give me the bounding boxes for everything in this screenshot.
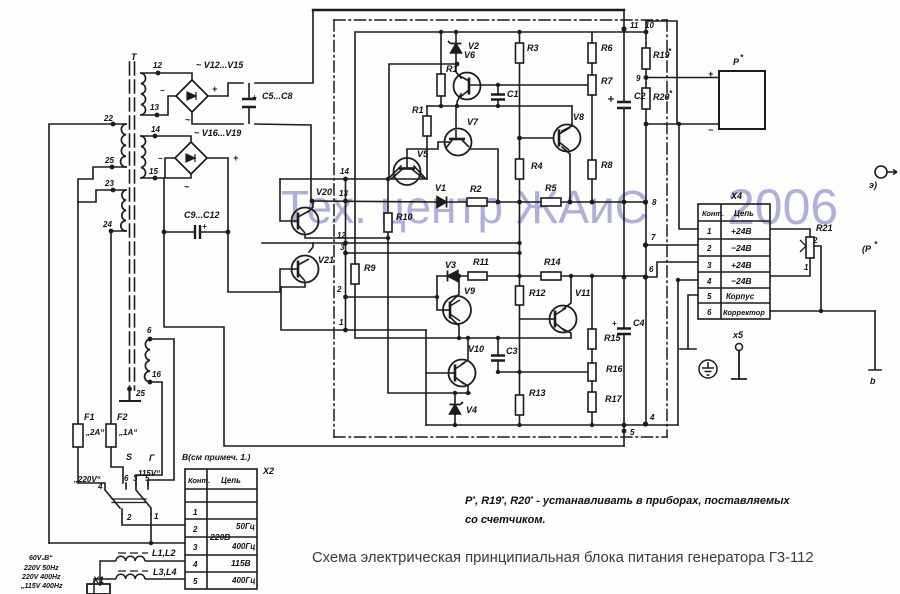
svg-text:R14: R14 (544, 257, 561, 267)
svg-text:5: 5 (193, 577, 198, 586)
svg-text:R4: R4 (531, 161, 543, 171)
svg-text:R12: R12 (529, 288, 546, 298)
R15-R16-R17 column (591, 276, 593, 425)
R1b leads (426, 106, 428, 179)
resistor R17 (588, 392, 596, 412)
svg-text:Х4: Х4 (730, 191, 742, 201)
svg-text:P: P (733, 57, 740, 67)
V2 column / wire y64 (389, 32, 456, 179)
svg-text:R2: R2 (470, 184, 482, 194)
rail 12 (262, 242, 519, 244)
transistor V11 (550, 306, 577, 333)
V10 emitter (462, 382, 468, 393)
V8 emitter (562, 147, 570, 202)
resistor R1 upper (351, 43, 650, 415)
resistor R16 (588, 363, 596, 381)
svg-text:Г: Г (149, 453, 155, 463)
svg-text:+24В: +24В (731, 260, 752, 270)
svg-text:−: − (160, 86, 165, 95)
svg-text:V1: V1 (435, 183, 446, 193)
svg-text:4: 4 (649, 413, 655, 422)
resistor R20 (642, 88, 650, 109)
zener diode V2 (448, 41, 462, 53)
svg-text:R11: R11 (473, 257, 489, 267)
X2 connector table (185, 469, 257, 589)
V11 collector (563, 276, 571, 309)
svg-text:15: 15 (149, 167, 158, 176)
bridge rectifier V16-V19 (175, 142, 207, 174)
svg-text:13: 13 (339, 189, 348, 198)
X4 connector table (698, 204, 770, 319)
chassis dash-dot boundary (334, 20, 667, 437)
svg-text:R10: R10 (396, 212, 413, 222)
R1a leads (440, 64, 442, 106)
wire C3 bottom to R16 (498, 371, 588, 373)
wire y106 (427, 105, 572, 107)
capacitor C4 (617, 329, 631, 335)
capacitor C2 (608, 96, 631, 108)
winding 14-15 (141, 136, 146, 178)
capacitor C9-C12 (164, 225, 228, 239)
transistor V6 (454, 73, 481, 100)
wire 15 (141, 158, 191, 178)
rail 393 and V4 stem (454, 393, 456, 425)
svg-text:+: + (252, 93, 257, 102)
svg-text:V7: V7 (467, 117, 479, 127)
ground symbol (699, 360, 717, 378)
resistor R7 (588, 75, 596, 95)
wire to P- (646, 123, 719, 125)
transistor V20 (292, 208, 319, 235)
svg-text:5: 5 (145, 474, 150, 483)
R9 feed wire x=355 (355, 32, 571, 338)
resistor R6 (588, 43, 596, 63)
svg-text:3: 3 (707, 261, 712, 270)
V9 collector (450, 276, 459, 303)
svg-text:V3: V3 (445, 260, 456, 270)
line filter L3,L4 (94, 571, 185, 594)
rail 276 (V3-R11-R14-node6) (437, 275, 646, 277)
transistor V9 (443, 296, 471, 324)
node7 wire to X4 row2 (646, 244, 698, 246)
svg-text:S: S (126, 452, 132, 462)
svg-text:R1: R1 (446, 64, 458, 74)
voltage text block (20, 555, 63, 590)
svg-text:R3: R3 (527, 43, 539, 53)
transistor V21 (292, 256, 319, 283)
wire node9 to P+ (646, 77, 719, 79)
resistor R14 (horizontal) (541, 272, 561, 280)
svg-text:25: 25 (104, 156, 114, 165)
wire 23 jog (78, 190, 113, 202)
handwritten note (465, 495, 791, 526)
svg-text:−24В: −24В (731, 243, 752, 253)
svg-text:Схема электрическая принципиал: Схема электрическая принципиальная блока… (312, 550, 814, 566)
svg-text:14: 14 (151, 125, 160, 134)
svg-text:25: 25 (135, 389, 145, 398)
svg-text:Конт.: Конт. (188, 476, 210, 485)
svg-text:4: 4 (192, 560, 198, 569)
rail 3 (345, 252, 519, 254)
svg-text:6: 6 (147, 326, 152, 335)
svg-text:Цепь: Цепь (221, 476, 241, 485)
svg-text:1: 1 (154, 512, 159, 521)
node6 jog to X4 row3 (646, 262, 698, 277)
svg-text:+: + (612, 319, 617, 328)
svg-text:„2А“: „2А“ (85, 428, 104, 437)
winding 12-13 (right of core) (141, 73, 146, 115)
svg-text:10: 10 (645, 21, 654, 30)
node bus x=345 (terminals 14,13,12,3,2,1) (345, 179, 347, 330)
svg-text:V10: V10 (468, 344, 484, 354)
V10 collector (462, 338, 468, 364)
svg-text:22: 22 (103, 114, 113, 123)
V20 base (280, 179, 297, 221)
svg-text:12: 12 (153, 61, 162, 70)
resistor R19 (642, 48, 650, 69)
svg-text:V6: V6 (464, 50, 476, 60)
svg-text:R1: R1 (412, 105, 424, 115)
C3 leads (497, 338, 499, 372)
winding 6-16 (145, 339, 150, 382)
svg-text:3: 3 (340, 243, 345, 252)
zener diode V4 (450, 402, 464, 414)
resistor R5 (horizontal) (541, 198, 561, 206)
resistor R4 (516, 159, 524, 179)
svg-text:2: 2 (706, 244, 712, 253)
resistor R10 (384, 213, 392, 232)
bridge rectifier V12-V15 (176, 80, 208, 112)
svg-text:−: − (708, 125, 714, 135)
svg-text:R13: R13 (529, 388, 546, 398)
resistor R2 (horizontal) (467, 198, 487, 206)
svg-text:Корректор: Корректор (723, 308, 765, 317)
svg-text:115В: 115В (231, 558, 251, 568)
capacitor C1 (491, 95, 505, 100)
svg-text:6: 6 (124, 474, 129, 483)
svg-text:V9: V9 (464, 286, 475, 296)
winding 22-25 (left of core) (121, 124, 126, 167)
core terminal 25 ground bar (120, 390, 140, 401)
svg-text:R9: R9 (364, 263, 376, 273)
svg-text:16: 16 (152, 370, 161, 379)
svg-text:~ V12...V15: ~ V12...V15 (196, 60, 244, 70)
column x=646 (10 - R19 - 9 - R20 - 8 - 7 - 6 - 4) (645, 32, 647, 424)
line filter L1,L2 (100, 553, 185, 586)
svg-text:со счетчиком.: со счетчиком. (465, 514, 546, 526)
svg-text:2: 2 (126, 513, 132, 522)
rail 13 (node13 to node8) (311, 201, 437, 202)
svg-text:F2: F2 (117, 412, 128, 422)
V6 collector (456, 64, 461, 78)
svg-text:F1: F1 (84, 412, 95, 422)
V21 emitter (281, 282, 305, 287)
capacitor C5-C8 (242, 83, 256, 124)
svg-text:R6: R6 (601, 43, 613, 53)
V9 emitter (450, 317, 459, 338)
svg-text:R15: R15 (604, 333, 622, 343)
V5 emitter to x388 column / R10 (389, 166, 425, 178)
svg-text:4: 4 (97, 482, 103, 491)
rail +32 top inner (356, 31, 647, 33)
V11 base wire from R12 column (520, 318, 552, 320)
svg-text:2: 2 (812, 236, 818, 245)
svg-text:Х2: Х2 (262, 466, 274, 476)
V3/V9 base column (437, 276, 443, 310)
transistor V5 (392, 158, 424, 185)
resistor R12 (516, 286, 524, 305)
svg-text:L1,L2: L1,L2 (152, 548, 176, 558)
resistor R13 (516, 395, 524, 415)
svg-text:C5...C8: C5...C8 (262, 91, 293, 101)
wire 12 (141, 73, 192, 80)
svg-text:1: 1 (193, 508, 198, 517)
plug X1 (87, 550, 110, 594)
svg-text:−: − (158, 154, 163, 163)
svg-text:2: 2 (192, 525, 198, 534)
svg-text:C4: C4 (633, 318, 645, 328)
svg-text:+: + (202, 222, 207, 231)
X4 row4 wire from bus (678, 280, 698, 425)
svg-text:220V 400Нz: 220V 400Нz (21, 574, 61, 581)
svg-text:6: 6 (707, 308, 712, 317)
terminal э) (875, 166, 897, 178)
V20 collector (308, 202, 313, 212)
svg-text:C2: C2 (634, 91, 646, 101)
svg-text:+24В: +24В (731, 226, 752, 236)
svg-text:220V 50Нz: 220V 50Нz (23, 565, 59, 572)
svg-text:R7: R7 (601, 76, 613, 86)
V11 emitter (563, 329, 571, 338)
resistor R15 (588, 329, 596, 349)
diode V1 (437, 197, 447, 208)
svg-text:Р*, R19*, R20* - устанавливать: Р*, R19*, R20* - устанавливать в прибора… (465, 495, 791, 507)
svg-text:R21: R21 (816, 223, 833, 233)
svg-text:Конт.: Конт. (702, 209, 724, 218)
Корректор wire row6 to b-line (770, 309, 881, 370)
resistor R3 (516, 43, 524, 63)
rail 1 (281, 287, 426, 330)
C1 leads (497, 85, 499, 106)
R3 leads / column x=519 (519, 32, 521, 425)
outer top rail (313, 9, 624, 11)
svg-text:V21: V21 (318, 255, 334, 265)
resistor R9 (351, 264, 359, 284)
wire 24 to F2 column (110, 231, 112, 424)
svg-text:5: 5 (707, 292, 712, 301)
C9C12 minus line down-right to lower loop (164, 232, 624, 446)
svg-text:V20: V20 (316, 187, 332, 197)
svg-text:+: + (212, 84, 218, 94)
terminal X5 (731, 344, 747, 380)
R6-R7-R8 column x=592 (591, 32, 593, 202)
V7 collector (455, 106, 457, 128)
svg-text:C9...C12: C9...C12 (184, 210, 220, 220)
svg-text:1: 1 (804, 263, 809, 272)
svg-text:R20: R20 (653, 92, 670, 102)
svg-text:50Гц: 50Гц (236, 522, 255, 531)
svg-text:„115V 400Нz: „115V 400Нz (20, 583, 63, 590)
V21 base (292, 268, 297, 270)
svg-text:э): э) (869, 180, 877, 190)
V8 base wire (520, 137, 554, 139)
svg-text:400Гц: 400Гц (231, 542, 255, 551)
svg-text:−24В: −24В (731, 276, 752, 286)
wire 14 (141, 136, 191, 142)
potentiometer R21 (770, 229, 821, 311)
svg-text:1: 1 (707, 227, 712, 236)
resistor R8 (588, 160, 596, 179)
svg-text:V8: V8 (573, 112, 584, 122)
svg-text:220В: 220В (209, 532, 230, 542)
column x=624 (11 - C2 - rail13 - C4 - bus - 446) (623, 10, 625, 446)
capR line to V21 base (228, 232, 292, 292)
wire 13 to bridge (141, 96, 176, 115)
svg-text:~: ~ (185, 115, 191, 125)
svg-text:13: 13 (150, 103, 159, 112)
svg-text:b: b (870, 376, 876, 386)
svg-text:9: 9 (636, 74, 641, 83)
svg-text:L3,L4: L3,L4 (153, 567, 177, 577)
V8 collector (562, 106, 572, 131)
svg-text:24: 24 (102, 220, 112, 229)
resistor R1 lower (423, 116, 431, 136)
V10 base wire (426, 372, 448, 374)
V7 emitter wire down to rail13 (471, 149, 498, 202)
svg-text:11: 11 (630, 21, 639, 30)
x=426 drop to bus425 (425, 330, 427, 425)
chassis terminal from row5 (680, 295, 698, 349)
wire 25 jog to F1 column (78, 167, 112, 424)
svg-text:Цепь: Цепь (734, 209, 754, 218)
svg-text:R8: R8 (601, 160, 613, 170)
svg-text:7: 7 (651, 233, 656, 242)
svg-text:+: + (233, 153, 239, 163)
svg-text:V4: V4 (466, 405, 477, 415)
rail 14 (280, 178, 427, 180)
svg-text:R5: R5 (545, 183, 557, 193)
svg-text:V11: V11 (575, 288, 590, 298)
svg-text:23: 23 (104, 179, 114, 188)
svg-text:5: 5 (630, 428, 635, 437)
wire 22 to left outer (49, 124, 113, 543)
bridge2 output wires (164, 158, 228, 232)
svg-text:14: 14 (340, 167, 349, 176)
svg-text:400Гц: 400Гц (231, 576, 255, 585)
svg-text:Корпус: Корпус (726, 292, 755, 301)
meter P* box (719, 71, 765, 129)
diode V3 (448, 271, 459, 282)
bottom bus 425 (426, 424, 678, 426)
svg-text:R16: R16 (606, 364, 624, 374)
svg-text:60V₂В“: 60V₂В“ (29, 555, 53, 562)
svg-text:В(см примеч. 1.): В(см примеч. 1.) (182, 452, 250, 462)
svg-text:8: 8 (652, 198, 657, 207)
node10 jog to x677 (646, 21, 677, 124)
V5 base wire (407, 142, 449, 168)
svg-text:1: 1 (339, 318, 344, 327)
svg-text:C1: C1 (507, 89, 519, 99)
bridge1 output wires (192, 10, 313, 201)
svg-text:„1А“: „1А“ (118, 428, 137, 437)
rail 2 (345, 296, 437, 298)
switch S (49, 467, 185, 545)
transistor V8 (554, 125, 581, 152)
svg-text:~: ~ (184, 182, 190, 192)
V21 collector (309, 243, 313, 252)
transistor V7 (445, 129, 472, 156)
V6 emitter (457, 94, 461, 106)
svg-text:V5: V5 (417, 149, 429, 159)
transistor V10 (448, 360, 476, 387)
svg-text:Тех. центр ЖАиС: Тех. центр ЖАиС (281, 181, 648, 233)
V20 emitter wire (305, 234, 388, 238)
svg-text:12: 12 (337, 231, 346, 240)
svg-text:„220V“: „220V“ (73, 475, 101, 484)
svg-text:2: 2 (336, 285, 342, 294)
svg-text:3: 3 (193, 543, 198, 552)
svg-text:6: 6 (649, 265, 654, 274)
wire 6 (148, 339, 174, 485)
svg-text:х5: х5 (732, 330, 744, 340)
winding 23-24 (121, 190, 126, 231)
svg-text:X1: X1 (92, 575, 104, 585)
wire 16 (136, 382, 162, 485)
svg-text:+: + (708, 69, 714, 79)
svg-text:(Р: (Р (862, 244, 872, 254)
svg-text:3: 3 (133, 474, 138, 483)
transformer core (129, 62, 131, 390)
svg-text:~ V16...V19: ~ V16...V19 (194, 128, 241, 138)
V6 base wire to R7 (470, 84, 587, 86)
fuse F2 (106, 424, 116, 467)
svg-text:R17: R17 (605, 394, 623, 404)
watermark (281, 179, 838, 235)
resistor R11 (horizontal) (468, 272, 487, 280)
b terminal wire (869, 311, 881, 370)
capacitor C3 (491, 356, 505, 361)
svg-text:C3: C3 (506, 346, 518, 356)
svg-text:4: 4 (706, 277, 712, 286)
x679 feed to X4 row1 (679, 124, 698, 229)
fuse F1 (73, 424, 83, 483)
